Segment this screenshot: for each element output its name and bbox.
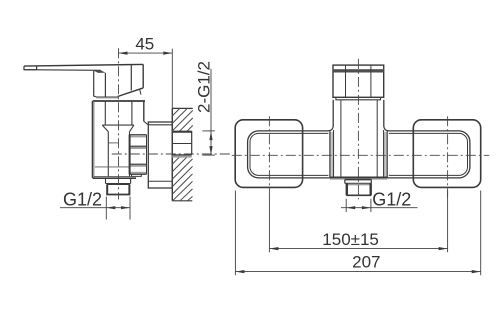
boss lower line [95, 166, 130, 168]
arrowheads [106, 52, 480, 274]
dim 207 extension lines [235, 191, 480, 276]
handle base bottom line [94, 96, 119, 97]
crossbar tube outer contour [248, 131, 470, 178]
boss left chamfer [102, 125, 108, 132]
arrow 150 left [269, 247, 278, 250]
bottom nut shoulder bottom line [345, 182, 372, 184]
svg-text:2-G1/2: 2-G1/2 [194, 61, 213, 113]
wall nipple top edge [172, 131, 191, 133]
right figure horizontal centerline [232, 154, 490, 156]
column right edge [383, 100, 385, 126]
wall bottom edge [172, 200, 192, 202]
boss top edge [102, 124, 134, 126]
wall flange inner bottom line [148, 180, 172, 182]
top cartridge inner vertical right [370, 65, 372, 97]
hub left chamfer strip [331, 132, 334, 177]
wall nipple right edge [191, 131, 193, 155]
dim 2-G1/2 bottom tick [202, 154, 215, 156]
arrow 207 right [472, 270, 481, 273]
wall hatch upper [172, 108, 193, 131]
outlet hex nut facet line 2 [130, 163, 147, 165]
svg-text:45: 45 [135, 34, 154, 53]
bottom nipple top edge [107, 184, 130, 186]
top cartridge inner vertical left [345, 65, 347, 97]
step under cartridge [336, 97, 381, 100]
dim 2-G1/2 line [210, 131, 212, 155]
svg-text:207: 207 [352, 253, 380, 272]
arrow G1/2L left [106, 206, 115, 209]
bottom plate right edge [130, 179, 132, 184]
arrow 45 right [163, 52, 172, 55]
dim G1/2 right extension lines [346, 199, 371, 212]
body bottom edge [93, 177, 136, 179]
bottom nut bottom edge [346, 194, 371, 196]
bottom plate bottom line [106, 183, 131, 185]
handle cap block inner edge [130, 65, 132, 91]
bottom plate left edge [105, 179, 107, 184]
column left edge [332, 100, 334, 126]
dim 45 line [118, 52, 172, 54]
handle cap block right edge [142, 64, 144, 88]
bottom nipple right edge [128, 185, 130, 195]
wall flange inner top line [148, 124, 172, 126]
bottom nipple bottom edge [106, 194, 130, 196]
body inner vertical left [104, 101, 106, 125]
hub right chamfer strip [384, 132, 387, 177]
body inner vertical right [131, 101, 133, 125]
hub top-left fillet [328, 125, 333, 130]
svg-text:150±15: 150±15 [322, 230, 379, 249]
arrow G1/2R right [362, 206, 371, 209]
lever neck shadow wedge [93, 70, 105, 73]
boss right chamfer [130, 125, 134, 132]
lever handle left tip cap [24, 66, 37, 70]
dim G1/2 left underline [60, 207, 130, 209]
arrow 150 right [439, 247, 448, 250]
wall top edge [172, 107, 193, 109]
outlet hex nut gray bands [130, 135, 147, 174]
bottom nut shoulder top line [345, 179, 372, 181]
dim 150 extension lines [269, 191, 447, 253]
dim 150 line [269, 248, 447, 250]
bottom nut left edge [346, 183, 348, 195]
arrow 207 left [235, 270, 244, 273]
arrow 2-G1/2 down [209, 146, 212, 155]
hub top-right fillet [384, 125, 389, 130]
dim 2-G1/2 top tick [202, 130, 215, 132]
dim 207 line [235, 271, 480, 273]
handle cap slanted underside [118, 88, 144, 97]
hub left inner edge [333, 130, 335, 177]
outlet hex nut bottom edge [130, 173, 147, 175]
right mount centerline [447, 116, 449, 197]
boss mid line [108, 142, 119, 144]
bottom nut gray band [346, 184, 371, 186]
bottom nipple left edge [106, 185, 108, 195]
bottom nut shoulder sides [345, 180, 372, 184]
boss left edge [107, 132, 109, 177]
column inner vertical right [376, 100, 378, 178]
column inner vertical left [340, 100, 342, 178]
body left edge [91, 101, 94, 178]
arrow 2-G1/2 up [209, 131, 212, 140]
svg-text:G1/2: G1/2 [63, 189, 102, 209]
outlet hex nut right edge [146, 135, 148, 175]
dim G1/2 right underline [341, 207, 418, 209]
dim 2-G1/2 leader line [210, 69, 212, 131]
body right upper edge [143, 101, 145, 121]
wall nipple mid line [172, 143, 191, 145]
boss right edge [129, 132, 131, 177]
wall hatch lower [172, 157, 192, 201]
hub bottom edge [330, 176, 387, 178]
escutcheon gray shade under handle [96, 98, 118, 99]
arrow G1/2L right [121, 206, 130, 209]
top cartridge block [333, 65, 384, 97]
left mounting block [235, 120, 302, 188]
arrow G1/2R left [346, 206, 355, 209]
hub cover plate [328, 125, 388, 177]
lever handle top edge [24, 64, 143, 66]
outlet hex nut bottom step [132, 174, 142, 176]
right mounting block [413, 120, 480, 188]
hub bottom gray band [330, 178, 387, 179]
dim 45 right extension [171, 49, 173, 109]
wall nipple bottom edge [172, 154, 191, 156]
left figure horizontal centerline [112, 153, 233, 155]
lever neck left edge [93, 71, 95, 97]
outlet hex nut facet line 1 [130, 145, 147, 147]
hub right inner edge [383, 130, 385, 177]
arrow 45 left [118, 52, 127, 55]
dim G1/2 left extension lines [106, 197, 130, 220]
lever neck right edge [104, 73, 106, 97]
hub right outer edge [386, 131, 388, 177]
lever handle bottom edge [24, 69, 101, 72]
handle cap small tick [140, 89, 141, 95]
outlet hex nut left edge [129, 135, 131, 175]
wall face line [171, 108, 173, 200]
body top edge [93, 100, 145, 102]
left figure vertical centerline [117, 48, 119, 199]
right figure vertical centerline [357, 59, 359, 199]
wall flange outline [148, 122, 172, 188]
wall nipple gray band [172, 156, 191, 158]
body right shoulder bevel [144, 121, 149, 125]
bottom nut right edge [370, 183, 372, 195]
body bottom inner line [94, 176, 132, 178]
left mount centerline [268, 116, 270, 197]
svg-text:G1/2: G1/2 [372, 189, 411, 209]
body left inner line [93, 101, 95, 177]
hub left outer edge [329, 131, 331, 177]
outlet hex nut top edge [130, 134, 147, 136]
crossbar tube inner contour [250, 133, 468, 175]
top cartridge dark band [333, 69, 384, 72]
